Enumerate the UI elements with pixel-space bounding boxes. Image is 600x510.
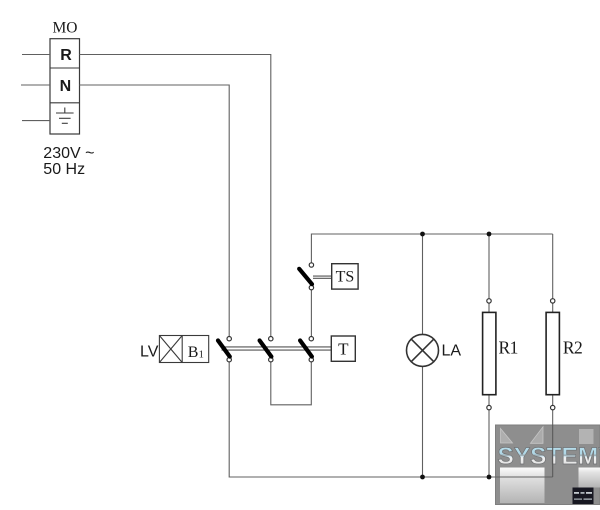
switch pole 1: [218, 337, 231, 362]
svg-text:230V ~: 230V ~: [43, 145, 94, 162]
svg-text:MO: MO: [53, 20, 78, 37]
svg-text:R1: R1: [499, 337, 518, 357]
junction dot top bus / R1: [487, 232, 492, 237]
wire: pole 2 to pole 3 link: [271, 362, 312, 405]
switch pole 3: [300, 337, 313, 362]
TS coupling bar: [313, 275, 332, 277]
svg-text:SYSTEMY: SYSTEMY: [498, 443, 600, 470]
wire: pole 3 up to TS contact: [310, 290, 312, 337]
TS contact: [299, 263, 313, 290]
svg-text:R2: R2: [563, 337, 582, 357]
svg-text:LA: LA: [442, 342, 462, 359]
box B1 (crossed box): [159, 336, 208, 363]
lamp LA: [407, 334, 439, 366]
wire: R1 branch: [488, 234, 490, 299]
switch coupling bar (3-pole to T): [222, 346, 332, 348]
resistor R2: [546, 299, 559, 410]
junction dot bottom bus / lamp: [420, 475, 425, 480]
svg-text:1: 1: [199, 350, 204, 361]
box TS (safety thermostat): [332, 264, 358, 289]
box T (thermostat): [331, 336, 355, 361]
wire: lamp branch: [422, 234, 424, 334]
wire: pole 1 down + bottom bus: [229, 362, 553, 477]
ground symbol (PE): [56, 108, 74, 124]
svg-text:50 Hz: 50 Hz: [43, 161, 85, 178]
resistor R1: [483, 299, 496, 410]
svg-text:T: T: [338, 339, 349, 358]
wire: N feed to switch pole 1: [80, 85, 230, 337]
junction dot top bus / lamp: [420, 232, 425, 237]
svg-text:LV: LV: [140, 344, 159, 361]
wire: TS contact up + top bus: [311, 234, 552, 263]
wire: mains stub PE: [22, 120, 50, 122]
wire: R2 branch: [552, 234, 554, 299]
junction dot bottom bus / R1: [487, 475, 492, 480]
svg-text:B: B: [188, 344, 199, 361]
terminal block MO: [50, 39, 80, 134]
switch pole 2: [260, 337, 273, 362]
svg-text:N: N: [60, 78, 72, 95]
wire: mains stub L: [22, 54, 50, 56]
wire: R feed to switch pole 2: [80, 55, 271, 337]
watermark logo SYSTEM (bottom right): [496, 425, 600, 505]
svg-text:TS: TS: [336, 269, 355, 286]
wire: mains stub N: [21, 84, 50, 86]
svg-text:R: R: [60, 47, 72, 64]
